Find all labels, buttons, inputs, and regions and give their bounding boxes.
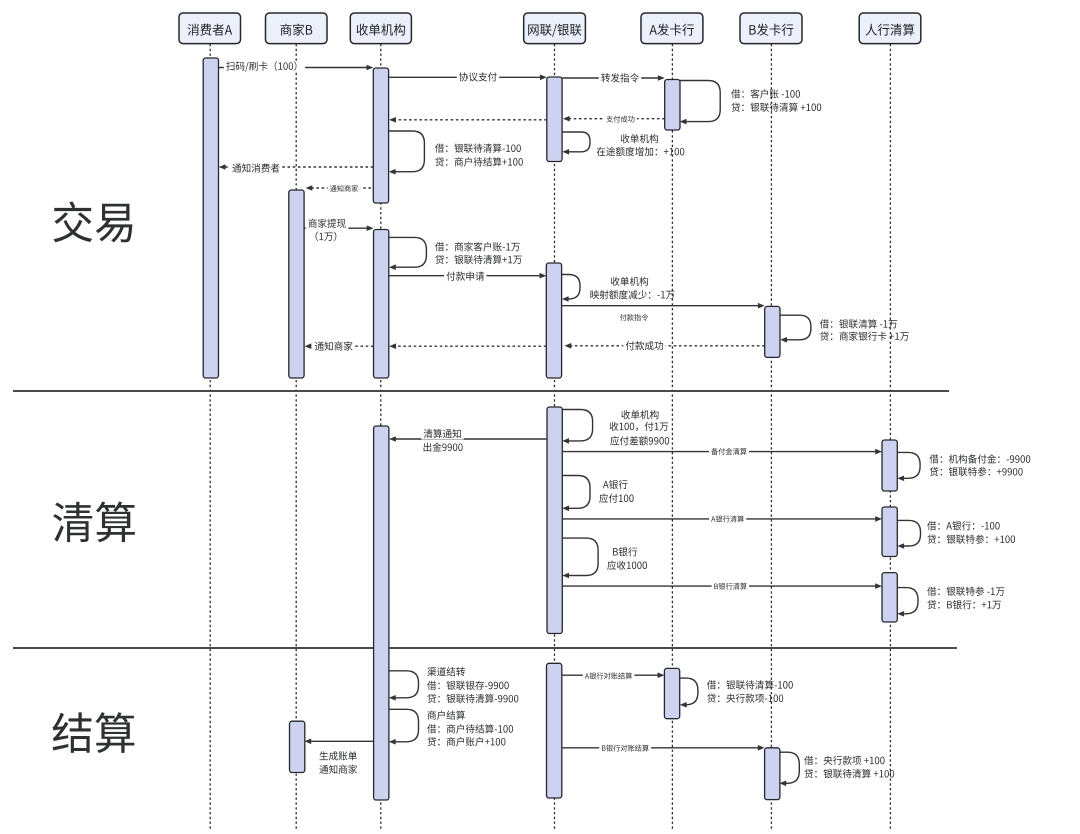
label 商户结算 line2	[427, 724, 513, 733]
lifeline 人行清算	[889, 44, 891, 831]
actor box 收单机构	[350, 13, 411, 44]
activation 网联 bar 1	[547, 77, 562, 162]
activation 人行清算 bar 1	[882, 440, 897, 491]
self-loop 网联 映射额度减少	[562, 275, 580, 302]
label 人行记账3 line1	[927, 587, 1004, 596]
label A发卡行记账 line2	[731, 103, 821, 112]
self-loop 人行清算 A银行记账	[897, 520, 920, 548]
label B银行清算 label	[712, 583, 750, 591]
label B银行对账结算 label	[599, 744, 651, 752]
activation 商家B bar 2	[290, 721, 305, 772]
label A银行清算 label	[709, 515, 746, 523]
label 渠道结转 line3	[427, 694, 518, 703]
label 网联loop4 line1	[603, 480, 628, 489]
lifeline 收单机构	[380, 44, 382, 831]
actor label 消费者A	[188, 24, 233, 36]
label 商户结算 line3	[427, 737, 505, 746]
message 扫码/刷卡（100） 消费者A→收单机构	[219, 65, 373, 71]
section label 结算	[52, 712, 134, 753]
message 协议支付 收单机构→网联	[389, 75, 547, 81]
actor label A发卡行	[649, 24, 693, 36]
actor label 人行清算	[866, 24, 915, 36]
actor label 商家B	[280, 24, 312, 36]
actor label 网联/银联	[528, 24, 581, 37]
actor box A发卡行	[641, 13, 703, 44]
label 网联loop label line1	[621, 134, 658, 143]
label 通知商家 small label	[328, 185, 361, 193]
label 付款申请 label	[444, 271, 486, 282]
self-loop 收单机构 渠道结转	[389, 671, 419, 701]
self-loop B发卡行 记账 (借银联清算)	[780, 315, 811, 342]
label B发卡行记账 line1	[820, 319, 897, 328]
section label 交易	[53, 201, 132, 242]
message B银行对账结算 网联→B发卡行	[562, 745, 765, 751]
label 网联loop3 line2	[610, 422, 669, 431]
label B发卡行对账 line2	[804, 769, 894, 778]
label A发卡行对账 line2	[707, 693, 783, 702]
self-loop 网联 A银行应付100	[562, 476, 590, 512]
self-loop 收单机构 记账 (借银联待清算)	[389, 131, 425, 175]
activation 收单机构 bar 2	[374, 230, 389, 379]
activation 商家B bar 1	[289, 190, 304, 378]
activation 收单机构 bar 1	[373, 68, 388, 203]
label 清算通知 label line2	[421, 442, 466, 453]
label 商户结算 line1	[428, 710, 465, 719]
dashed message 通知商家 收单机构→商家B	[306, 185, 372, 191]
label 网联loop2 line2	[590, 290, 674, 299]
message 清算通知出金9900 网联→收单机构	[389, 436, 547, 442]
dashed message 付款成功 B发卡行→网联	[565, 343, 765, 349]
label 网联loop label line2	[597, 147, 685, 156]
self-loop 人行清算 机构备付金	[897, 452, 920, 481]
dashed message 网联→收单机构 (付款成功转发)	[389, 343, 546, 349]
label 网联loop3 line1	[621, 410, 658, 419]
activation 网联 bar 2	[546, 263, 561, 378]
label 渠道结转 line1	[427, 667, 465, 676]
label 收单机构记账 line2	[435, 157, 523, 166]
message 付款指令 网联→B发卡行	[562, 303, 765, 309]
self-loop 网联 应付差额9900	[562, 410, 592, 444]
actor box 人行清算	[859, 13, 921, 44]
activation A发卡行 bar 2	[664, 668, 679, 718]
self-loop 收单机构 记账 (借商家客户账)	[389, 237, 426, 270]
label 网联loop3 line3	[610, 436, 669, 445]
label 生成账单 label line2	[319, 765, 357, 774]
dashed message 支付成功 A发卡行→网联	[563, 116, 665, 122]
dashed message 通知消费者 收单机构→消费者A	[219, 164, 374, 170]
activation A发卡行 bar 1	[665, 80, 680, 131]
self-loop 人行清算 B银行记账	[897, 588, 918, 617]
self-loop 网联 B银行应收1000	[562, 538, 598, 578]
label 支付成功 label	[604, 115, 637, 123]
self-loop A发卡行 记账 (借客户账)	[680, 81, 721, 125]
label A发卡行对账 line1	[707, 680, 793, 689]
lifeline 商家B	[295, 44, 297, 831]
section label 清算	[53, 502, 135, 543]
label 收单记账2 line1	[435, 242, 520, 251]
label A银行对账结算 label	[583, 672, 635, 680]
label B发卡行记账 line2	[820, 331, 909, 340]
label 渠道结转 line2	[427, 681, 509, 690]
self-loop 网联 在途额度增加	[562, 132, 590, 155]
activation 人行清算 bar 2	[882, 507, 897, 557]
message 备付金清算 网联→人行清算	[562, 449, 882, 455]
actor box 网联/银联	[524, 13, 586, 44]
label 人行记账2 line2	[927, 534, 1015, 543]
label 商家提现 label line2	[307, 231, 345, 242]
label 网联loop2 line1	[611, 277, 648, 286]
activation 网联 bar 4	[547, 663, 562, 798]
activation 收单机构 bar 3	[374, 426, 389, 800]
activation B发卡行 bar 2	[765, 748, 780, 800]
label 人行记账1 line1	[929, 454, 1030, 463]
activation 消费者A bar	[203, 58, 218, 378]
actor box 消费者A	[179, 13, 241, 44]
label 协议支付 label	[457, 72, 499, 83]
message B银行清算 网联→人行清算	[562, 583, 882, 589]
label B发卡行对账 line1	[804, 756, 884, 765]
label A发卡行记账 line1	[731, 89, 800, 98]
actor label B发卡行	[749, 24, 793, 36]
message 生成账单通知商家 收单机构→商家B	[304, 739, 373, 745]
label 人行记账1 line2	[930, 467, 1023, 476]
section divider 2 (清算/结算)	[13, 647, 957, 649]
message 付款申请 收单机构→网联	[389, 273, 546, 279]
label 网联loop5 line1	[613, 547, 637, 556]
actor box B发卡行	[740, 13, 802, 44]
dashed message 网联→收单机构	[389, 117, 547, 123]
lifeline 消费者A	[209, 44, 211, 831]
label 备付金清算 label	[709, 448, 749, 456]
label 通知消费者 label	[230, 163, 282, 174]
label 收单记账2 line2	[435, 255, 521, 264]
label 付款指令 label	[618, 314, 651, 322]
self-loop A发卡行 对账记账	[680, 678, 698, 708]
activation B发卡行 bar 1	[765, 306, 780, 357]
label 收单机构记账 line1	[435, 143, 521, 152]
label 扫码刷卡 label	[224, 61, 305, 72]
label 付款成功 label	[623, 341, 665, 352]
dashed message 通知商家 收单机构→商家B (付款)	[305, 343, 374, 349]
label 商家提现 label line1	[306, 218, 348, 229]
label 网联loop4 line2	[599, 494, 633, 503]
label 通知商家 label (付款)	[313, 341, 355, 352]
lifeline 网联/银联	[554, 44, 556, 831]
label 人行记账2 line1	[927, 521, 1000, 530]
label 网联loop5 line2	[607, 561, 647, 570]
section divider 1 (交易/清算)	[13, 390, 949, 392]
actor box 商家B	[266, 13, 328, 44]
label 转发指令 label	[599, 73, 641, 84]
activation 网联 bar 3	[547, 407, 562, 634]
lifeline A发卡行	[671, 44, 673, 831]
lifeline B发卡行	[770, 44, 772, 831]
label 生成账单 label line1	[320, 751, 357, 760]
message 商家提现（1万） 商家B→收单机构	[304, 225, 373, 231]
label 人行记账3 line2	[927, 600, 1001, 609]
message A银行清算 网联→人行清算	[562, 516, 882, 522]
label 清算通知 label line1	[421, 429, 463, 440]
message A银行对账结算 网联→A发卡行	[562, 672, 665, 678]
self-loop 收单机构 商户结算	[389, 709, 419, 744]
activation 人行清算 bar 3	[882, 573, 897, 622]
self-loop B发卡行 对账记账	[779, 752, 799, 786]
message 转发指令 网联→A发卡行	[562, 75, 664, 81]
actor label 收单机构	[357, 24, 405, 36]
